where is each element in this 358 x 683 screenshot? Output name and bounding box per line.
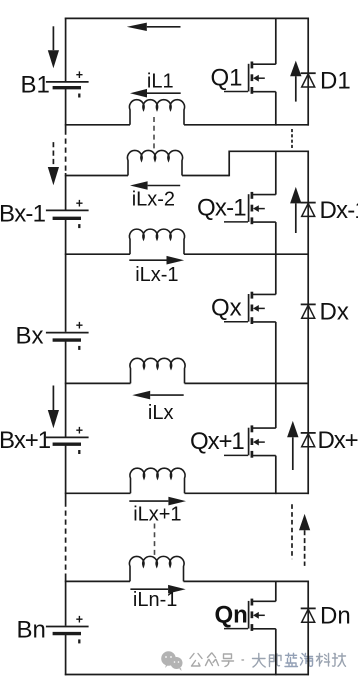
svg-text:Dx-1: Dx-1 (320, 197, 358, 224)
wire left bus below B1 (65, 89, 67, 130)
wire bottom rail (65, 674, 309, 676)
wire row3 left of iLx-1 (65, 253, 130, 255)
diode Dx+1 (301, 433, 316, 447)
wire row6 left of iLn-1 (65, 580, 130, 582)
wire row1 right of iL1 (184, 124, 309, 126)
watermark char hao (222, 654, 234, 667)
svg-text:Qx-1: Qx-1 (197, 195, 246, 222)
battery Bx-1 (46, 196, 89, 228)
wire Qx source vertical (275, 322, 277, 384)
svg-text:iLx-1: iLx-1 (135, 264, 178, 286)
svg-text:iLx+1: iLx+1 (133, 504, 181, 526)
inductor iLx+1 (130, 468, 185, 493)
inductor iLx (130, 358, 185, 383)
svg-text:Bx: Bx (16, 322, 44, 349)
watermark char hai (301, 654, 313, 667)
svg-text:+: + (76, 319, 83, 333)
wire Qx+1 source vertical (275, 456, 277, 495)
wire left bus below Bn (65, 635, 67, 676)
watermark char gong (190, 654, 202, 667)
wire Qx-1 drain vertical (275, 151, 277, 194)
svg-text:D1: D1 (320, 67, 351, 94)
svg-text:iL1: iL1 (147, 71, 174, 93)
wire Qn drain vertical (275, 581, 277, 601)
wire Q1 drain vertical (275, 18, 277, 64)
svg-text:B1: B1 (21, 72, 50, 99)
svg-text:+: + (76, 196, 83, 210)
watermark wechat logo (161, 651, 182, 671)
wire row5 right of iLx+1 (185, 492, 310, 494)
wire row2 step vertical (228, 151, 230, 177)
arrow Dx+1 current up (287, 421, 298, 437)
inductor iLn-1 (129, 556, 184, 581)
dashed link iLx+1 to iLn-1 (154, 524, 156, 560)
arrow iLn-1 current right (130, 588, 168, 590)
svg-text:+: + (76, 68, 83, 82)
wire left bus dashed continuation 2 (65, 502, 67, 576)
wire top rail (65, 17, 309, 19)
arrow iLx current left (150, 394, 184, 396)
wire right bus dashed continuation 1 (291, 129, 293, 149)
wire row1 left of iL1 (65, 124, 130, 126)
watermark char yin (270, 654, 282, 667)
inductor iLx-1 (129, 229, 184, 254)
arrow top rail current left (147, 26, 181, 28)
svg-text:Qx: Qx (211, 295, 242, 322)
transistor Qx (224, 292, 276, 324)
watermark char ji (333, 654, 346, 667)
arrow iL1 current left (147, 92, 181, 94)
diode Dx (301, 304, 316, 318)
diode Dx-1 (301, 203, 316, 217)
wire row5 left of iLx+1 (65, 492, 131, 494)
diode Dn (301, 608, 316, 622)
wire left bus Bx to Bx+1 (65, 341, 67, 437)
wire right bus dashed continuation 2 (291, 504, 293, 559)
battery Bx (46, 319, 89, 350)
svg-text:+: + (76, 613, 83, 627)
wire left bus below Bx+1 (65, 445, 67, 501)
wire left bus dashed continuation (65, 130, 67, 174)
inductor iL1 (129, 100, 184, 125)
watermark char ke (317, 654, 330, 667)
battery Bx+1 (46, 423, 89, 454)
svg-text:iLn-1: iLn-1 (133, 589, 177, 611)
arrow Bx+1 charge down (52, 386, 54, 411)
wire row2 left of iLx-2 (65, 175, 128, 177)
wire Qx-1 source vertical (275, 222, 277, 255)
wire right bus section 5 (307, 581, 309, 676)
svg-text:Dn: Dn (320, 603, 351, 630)
svg-text:Q1: Q1 (211, 64, 243, 91)
wire Qn source vertical (275, 629, 277, 676)
arrow D1 current up (290, 61, 301, 77)
svg-text:Bx+1: Bx+1 (0, 427, 51, 454)
wire left bus Bx-1 to Bx (65, 219, 67, 332)
arrow iLx-1 current right (129, 259, 166, 261)
transistor Qx-1 (224, 192, 276, 224)
wire left bus above Bx-1 (65, 173, 67, 210)
svg-text:Dx: Dx (320, 299, 349, 326)
svg-text:iLx: iLx (148, 402, 174, 424)
svg-text:Qn: Qn (215, 601, 248, 628)
wire right bus sections 2-4 (307, 151, 309, 495)
wire Qx+1 drain vertical (275, 383, 277, 428)
arrow iLx-2 current left (148, 185, 181, 187)
wire row2 right of iLx-2 (182, 175, 229, 177)
svg-text:Bn: Bn (17, 616, 46, 643)
svg-text:+: + (76, 423, 83, 437)
arrow B1 charge down (52, 26, 54, 50)
arrow Dx-1 current up (290, 187, 301, 204)
transistor Qn (224, 599, 276, 631)
watermark char zhong (206, 653, 219, 666)
wire right bus section 1 (307, 18, 309, 126)
wire row4 right of iLx (185, 382, 310, 384)
transistor Qx+1 (224, 425, 276, 457)
svg-text:Qx+1: Qx+1 (190, 428, 244, 455)
battery B1 (46, 68, 89, 98)
wire row6 right of iLn-1 (184, 580, 310, 582)
arrow iLx+1 current right (129, 500, 168, 502)
svg-text:Bx-1: Bx-1 (0, 201, 46, 228)
arrow Bx-1 charge down dashed (52, 142, 54, 167)
wire left bus above Bn (65, 576, 67, 626)
transistor Q1 (224, 62, 276, 94)
inductor iLx-2 (127, 150, 182, 175)
wire row4 left of iLx (65, 382, 131, 384)
dashed link iL1 to iLx-2 (153, 117, 155, 150)
wire row3 right of iLx-1 (184, 253, 309, 255)
watermark char da (253, 654, 266, 668)
diode D1 (301, 73, 316, 87)
battery Bn (46, 613, 89, 644)
watermark char middle dot (242, 659, 244, 661)
wire Q1 source vertical (275, 92, 277, 126)
svg-text:Dx+1: Dx+1 (318, 427, 358, 454)
wire left bus top segment (65, 18, 67, 82)
wire row2 upper right segment (229, 150, 309, 152)
arrow dashed up between sections (299, 514, 310, 530)
wire Qx drain vertical (275, 254, 277, 294)
watermark char lan (285, 653, 298, 666)
svg-text:iLx-2: iLx-2 (132, 189, 175, 211)
